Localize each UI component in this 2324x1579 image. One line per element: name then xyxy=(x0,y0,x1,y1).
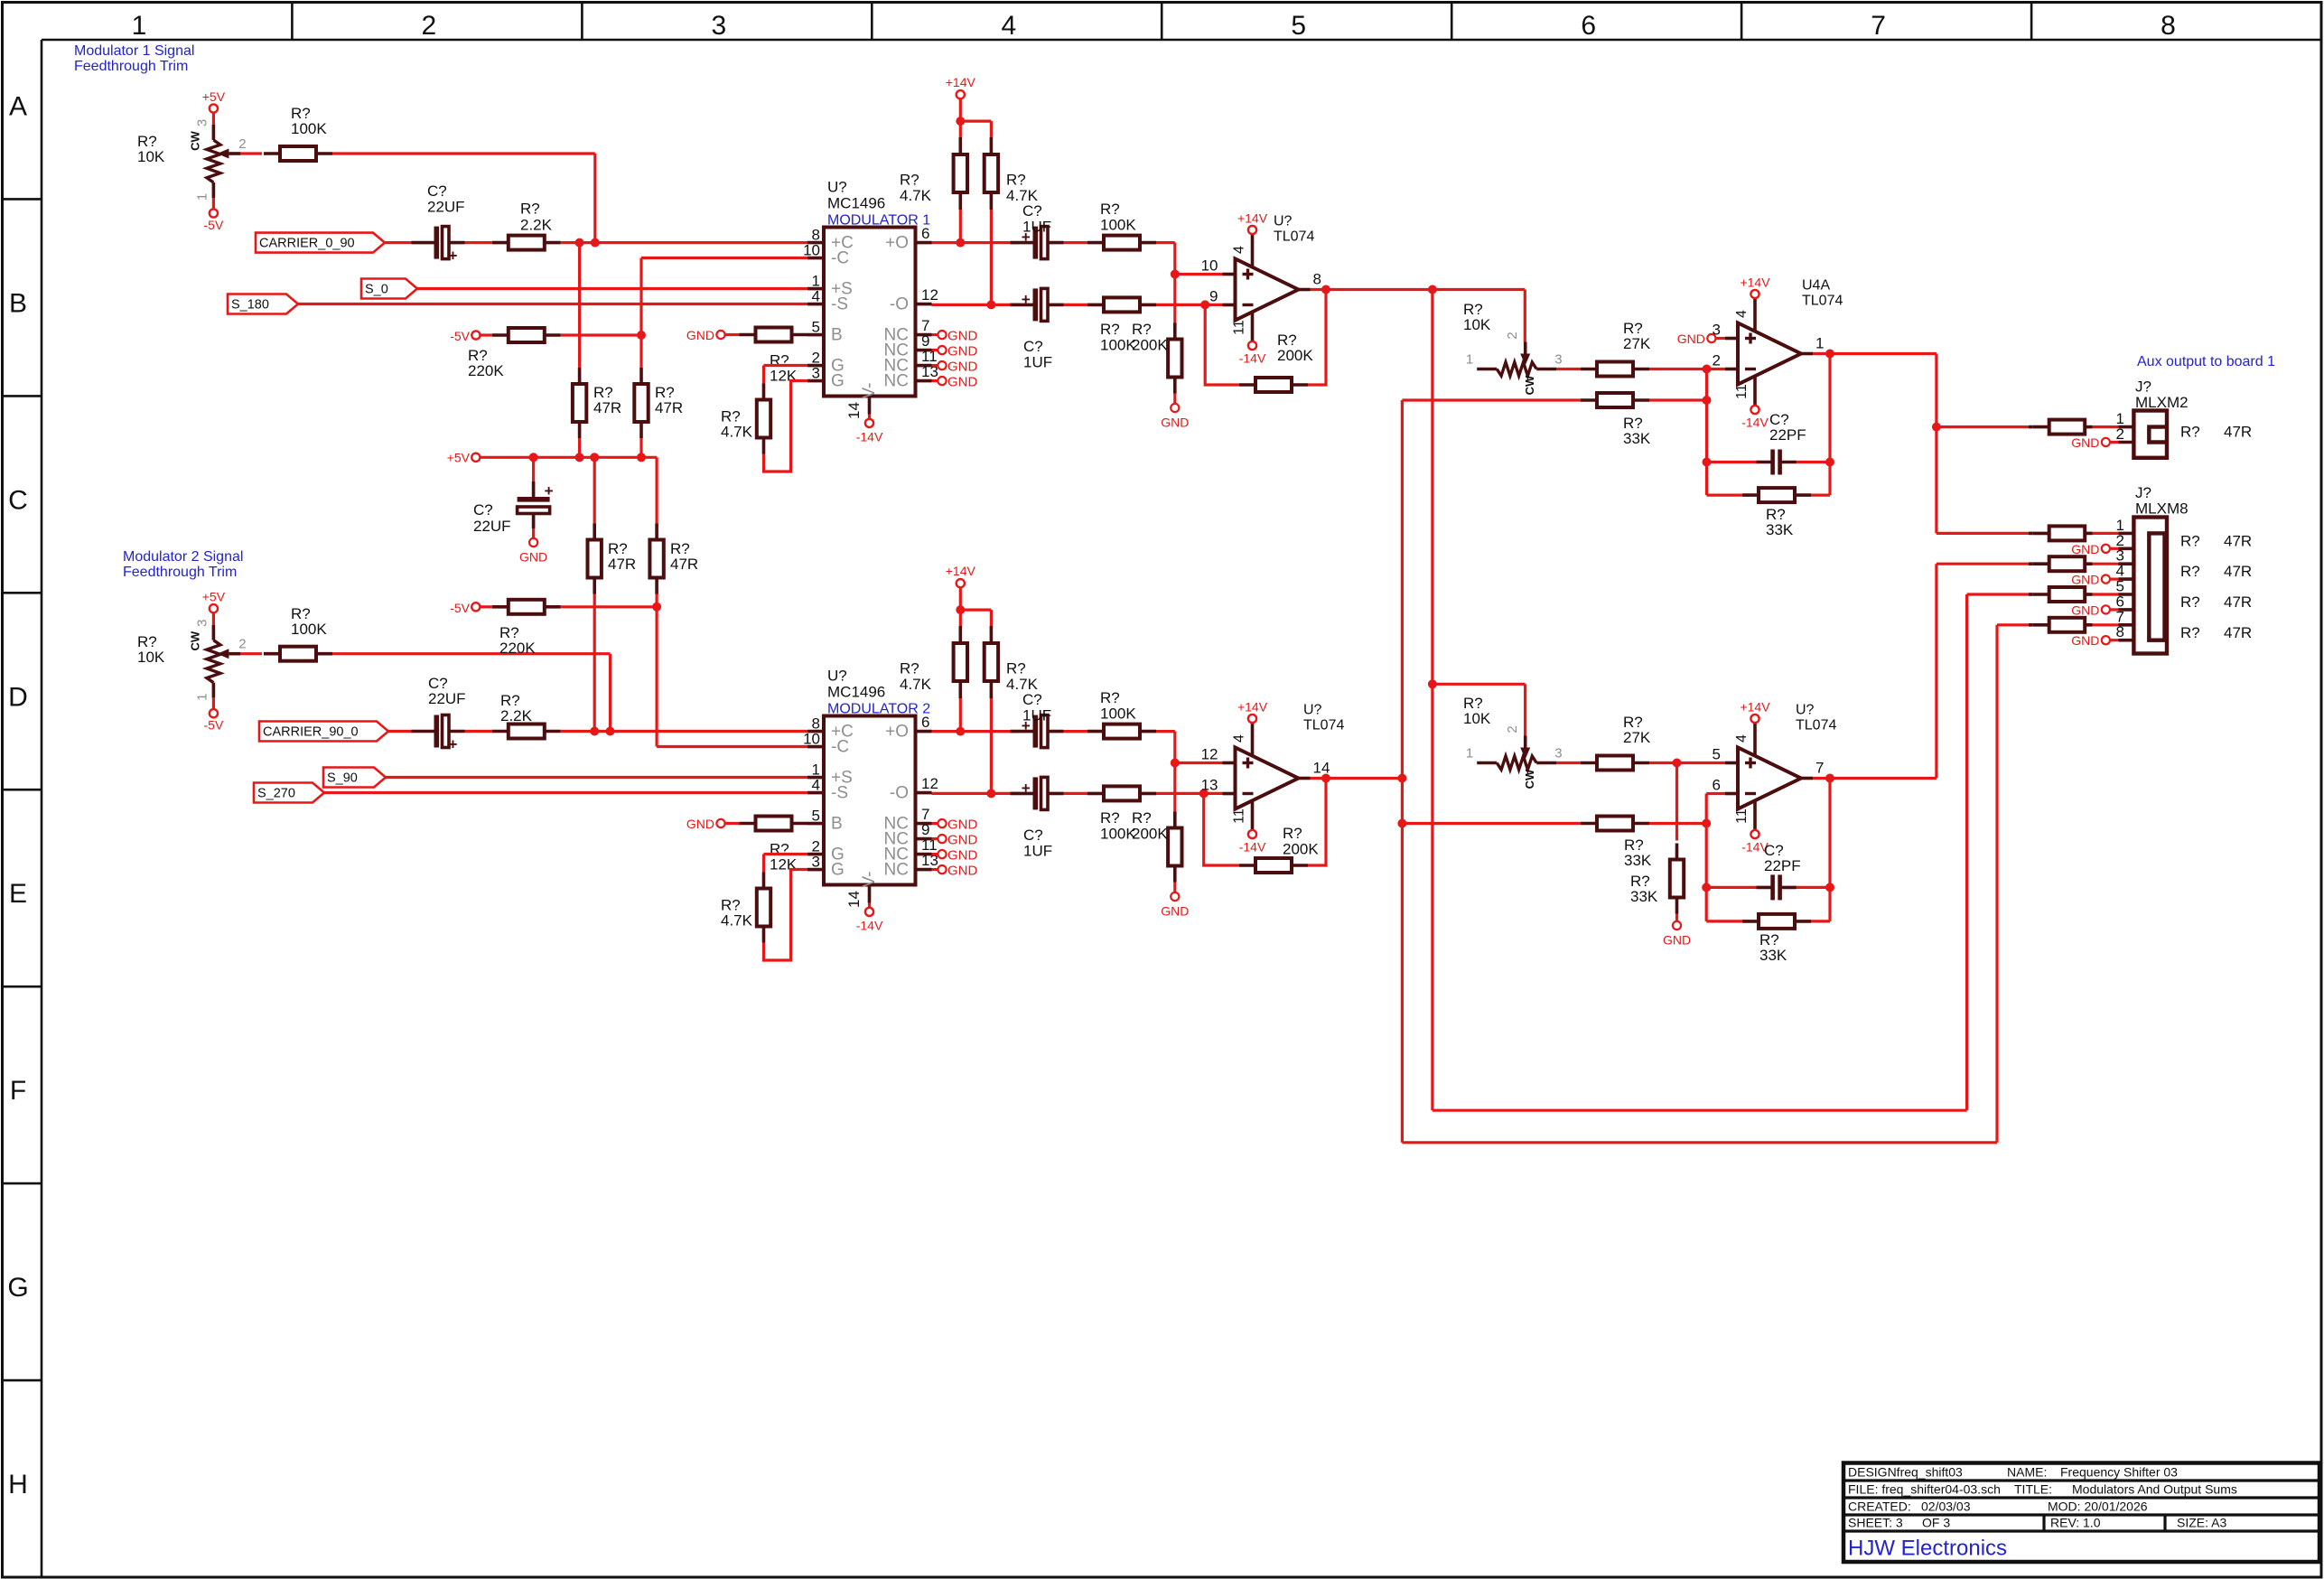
svg-text:33K: 33K xyxy=(1630,888,1658,905)
svg-text:R?: R? xyxy=(1132,321,1152,338)
svg-text:4: 4 xyxy=(812,777,820,794)
svg-text:CREATED:: CREATED: xyxy=(1848,1500,1911,1514)
junction +in node mod2 xyxy=(1171,759,1180,768)
resistor R? 100K -O mod1 xyxy=(1087,297,1156,312)
svg-text:4.7K: 4.7K xyxy=(900,676,932,693)
connector J? MLXM2 xyxy=(2116,378,2189,458)
svg-text:+: + xyxy=(545,482,554,500)
svg-text:+5V: +5V xyxy=(202,590,226,604)
ground flag at B pin mod1 xyxy=(686,328,725,342)
svg-text:S_180: S_180 xyxy=(231,298,269,313)
junction out1 / long vertical xyxy=(1428,285,1437,294)
svg-text:GND: GND xyxy=(947,360,978,375)
wire decoupling cap to GND xyxy=(532,528,535,538)
op-amp U? TL074 mod1 sum xyxy=(1201,211,1321,366)
capacitor C? 22PF stage1 xyxy=(1757,450,1797,475)
junction op4 out / fb xyxy=(1825,774,1834,783)
wire 2.2K mod2 to MC1496 pin8 xyxy=(561,730,807,733)
junction 33K/-in vertical stage1 xyxy=(1703,396,1712,405)
resistor R? 47R C mod2 xyxy=(588,524,602,594)
junction mod2 +C / pot wire xyxy=(606,727,615,736)
feedback loop 200K opamp3 xyxy=(1204,779,1326,866)
svg-text:+: + xyxy=(449,248,458,265)
wire opamp1 output xyxy=(1311,288,1526,291)
svg-text:22UF: 22UF xyxy=(428,690,466,707)
svg-text:MLXM8: MLXM8 xyxy=(2135,500,2189,517)
capacitor C? 1UF +O mod2 xyxy=(1011,715,1064,748)
comment Aux output to board 1 xyxy=(2137,354,2275,369)
wire rail to 22UF decoupling cap xyxy=(532,457,535,481)
wire +14V to 4.7K pair mod2 xyxy=(960,587,991,626)
ground below 200K mod2 xyxy=(1161,892,1189,919)
wire 47R-C to mod2 +C node xyxy=(593,594,596,732)
svg-text:-C: -C xyxy=(831,249,849,268)
resistor R? 33K input stage2 xyxy=(1581,817,1649,831)
svg-text:Modulators And Output Sums: Modulators And Output Sums xyxy=(2072,1482,2237,1497)
junction op1-out vertical / pot2 branch xyxy=(1428,679,1437,688)
wire -in vertical stage1 xyxy=(1705,369,1708,496)
svg-text:U?: U? xyxy=(1796,703,1815,718)
svg-text:CW: CW xyxy=(188,130,201,150)
wire -O row mod2 xyxy=(932,792,1021,795)
label R? 10K for trim pot 1 xyxy=(137,133,165,165)
ground flag MLXM2 pin2 xyxy=(2071,435,2133,450)
svg-text:6: 6 xyxy=(1713,777,1721,794)
resistor R? 200K feedback opamp3 xyxy=(1239,858,1308,873)
op-amp U? TL074 stage2 xyxy=(1713,700,1837,855)
resistor R? 12K mod1 xyxy=(740,328,808,342)
svg-text:+14V: +14V xyxy=(1237,211,1268,226)
net flag S_90 xyxy=(323,768,386,788)
svg-text:14: 14 xyxy=(1313,760,1330,777)
svg-text:GND: GND xyxy=(947,329,978,344)
net flag CARRIER_90_0 xyxy=(259,722,388,742)
wire +in down to 200K mod1 xyxy=(1173,275,1176,323)
junction fb right / 22PF stage1 xyxy=(1825,458,1834,467)
label R? 47R MLXM8 pin3 xyxy=(2180,563,2252,580)
svg-text:7: 7 xyxy=(1871,11,1886,41)
wire fb right vertical stage1 xyxy=(1828,354,1831,496)
svg-text:R?: R? xyxy=(1100,809,1120,827)
svg-text:220K: 220K xyxy=(468,362,504,379)
resistor R? 33K feedback stage1 xyxy=(1742,488,1811,502)
label R? 47R C mod2 xyxy=(608,540,636,573)
svg-text:6: 6 xyxy=(1581,11,1596,41)
wire -5V mod2 to 220K xyxy=(480,605,491,608)
wire 200K to GND mod2 xyxy=(1173,883,1176,892)
label R? 4.7K pullup B mod1 xyxy=(1006,172,1039,205)
svg-text:1UF: 1UF xyxy=(1022,707,1051,724)
svg-text:10K: 10K xyxy=(137,649,165,666)
svg-text:S_270: S_270 xyxy=(257,787,295,801)
resistor R? 33K input stage1 xyxy=(1581,393,1649,407)
svg-text:U?: U? xyxy=(827,668,847,685)
svg-text:33K: 33K xyxy=(1623,430,1651,447)
label C? 1UF +O mod1 xyxy=(1022,202,1051,236)
wire op4 output xyxy=(1813,777,1937,780)
resistor R? 47R MLXM8 pin1 xyxy=(2029,526,2133,540)
wire rail down to 47R-C xyxy=(593,457,596,523)
svg-text:GND: GND xyxy=(2071,573,2099,587)
svg-text:E: E xyxy=(9,879,27,909)
svg-text:10: 10 xyxy=(803,731,820,748)
resistor R? 47R D mod2 xyxy=(649,524,663,594)
svg-text:R?: R? xyxy=(1006,172,1026,189)
junction -O / 4.7K-B mod2 xyxy=(986,789,995,798)
svg-text:Aux output to board 1: Aux output to board 1 xyxy=(2137,354,2275,369)
svg-text:G: G xyxy=(7,1273,28,1303)
svg-text:+14V: +14V xyxy=(1237,700,1268,715)
svg-text:R?: R? xyxy=(2180,593,2200,611)
svg-text:47R: 47R xyxy=(2224,532,2252,549)
resistor R? 12K mod2 xyxy=(740,817,808,831)
wire to MLXM8 pin1 xyxy=(1937,532,2029,535)
svg-text:GND: GND xyxy=(519,550,547,565)
svg-text:TITLE:: TITLE: xyxy=(2014,1482,2052,1497)
wire 47R-B to +5V rail xyxy=(639,438,642,457)
svg-text:1: 1 xyxy=(1466,352,1473,368)
svg-text:11: 11 xyxy=(1734,808,1750,824)
svg-text:47R: 47R xyxy=(655,399,683,416)
svg-text:12: 12 xyxy=(1201,746,1218,763)
svg-text:4.7K: 4.7K xyxy=(900,187,932,204)
junction U4A out / fb xyxy=(1825,350,1834,359)
ground flag MLXM8 pin8 xyxy=(2071,633,2133,648)
wire to MLXM2 pin1 xyxy=(1937,425,2029,428)
wire gnd to U4A pin3 xyxy=(1716,337,1726,340)
wire 33K to -in vertical stage1 xyxy=(1649,398,1707,401)
label R? 4.7K pullup A mod2 xyxy=(900,660,932,694)
svg-text:22UF: 22UF xyxy=(473,518,511,535)
svg-text:F: F xyxy=(10,1076,26,1106)
svg-text:GND: GND xyxy=(1161,416,1189,430)
junction +in node mod1 xyxy=(1171,270,1180,279)
svg-text:U?: U? xyxy=(1303,703,1322,718)
svg-text:-14V: -14V xyxy=(1239,840,1266,855)
wire -O row mod1 xyxy=(932,304,1021,306)
wire 4.7K-B to -O row mod1 xyxy=(990,210,993,304)
wire op4 pin6 to -in vertical xyxy=(1706,794,1725,921)
wire 200K to GND mod1 xyxy=(1173,394,1176,404)
svg-text:8: 8 xyxy=(2116,623,2124,640)
svg-text:27K: 27K xyxy=(1623,729,1651,746)
svg-text:33K: 33K xyxy=(1759,947,1787,964)
svg-text:2: 2 xyxy=(238,136,246,152)
junction +O / 4.7K-A mod1 xyxy=(956,238,965,248)
svg-text:1: 1 xyxy=(194,193,210,201)
label R? 200K bias mod1 xyxy=(1132,321,1168,354)
feedback loop 200K opamp1 xyxy=(1205,289,1326,386)
label R? 200K bias mod2 xyxy=(1132,809,1168,843)
label R? 10K CV stage2 xyxy=(1463,695,1491,727)
junction rail / 47R-A xyxy=(575,453,584,462)
junction -in vertical / 33K stage2 xyxy=(1702,819,1711,828)
svg-text:R?: R? xyxy=(1100,321,1120,338)
svg-text:C?: C? xyxy=(1023,338,1043,355)
IC U? MC1496 MODULATOR 2 xyxy=(803,668,977,933)
svg-text:C?: C? xyxy=(1023,827,1043,844)
wire cap to 100K +O mod2 xyxy=(1064,730,1088,733)
svg-text:8: 8 xyxy=(1313,271,1321,288)
svg-text:SHEET: 3: SHEET: 3 xyxy=(1848,1516,1903,1530)
svg-text:+O: +O xyxy=(885,723,909,742)
svg-text:GND: GND xyxy=(686,328,714,342)
svg-text:C?: C? xyxy=(473,501,493,519)
svg-text:R?: R? xyxy=(900,660,919,677)
label R? 220K mod1 xyxy=(468,347,504,379)
wire pot1 wiper to R 100K xyxy=(240,152,262,154)
label C? 22PF stage2 xyxy=(1764,842,1801,874)
svg-text:1: 1 xyxy=(1815,335,1824,352)
wire +O row mod2 xyxy=(932,730,1021,733)
junction op3 vertical / 33K row2 xyxy=(1397,819,1406,828)
resistor R? 2.2K mod2 xyxy=(492,724,561,739)
wire 4.7K-A to +O row mod1 xyxy=(959,210,962,243)
svg-text:5: 5 xyxy=(812,808,820,825)
label R? 4.7K pullup A mod1 xyxy=(900,172,932,205)
svg-text:4.7K: 4.7K xyxy=(721,912,753,930)
svg-text:4: 4 xyxy=(1232,734,1247,743)
svg-text:1: 1 xyxy=(194,694,210,701)
svg-text:CW: CW xyxy=(1523,769,1536,789)
wire 220K mod2 to 47R-D vertical xyxy=(561,605,657,608)
wire +14V to 4.7K pair mod1 xyxy=(960,98,991,137)
wire 33K to -in vertical stage2 xyxy=(1649,822,1706,825)
wire gnd to 12K mod2 xyxy=(725,822,740,825)
label R? 220K mod2 xyxy=(499,624,536,657)
junction rail / 47R-B xyxy=(637,453,646,462)
wire pin2 to 4.7K mod2 xyxy=(764,855,808,874)
junction -in node mod2 xyxy=(1199,789,1209,798)
svg-text:47R: 47R xyxy=(2224,624,2252,641)
svg-text:R?: R? xyxy=(1100,201,1120,218)
svg-text:3: 3 xyxy=(1554,746,1562,761)
svg-text:GND: GND xyxy=(947,344,978,360)
wire 33K to GND stage2 xyxy=(1675,914,1678,921)
svg-text:+14V: +14V xyxy=(1740,276,1770,290)
svg-text:MC1496: MC1496 xyxy=(827,684,885,701)
svg-text:-5V: -5V xyxy=(450,601,470,615)
wire op3-out long vertical xyxy=(1401,400,1404,1143)
svg-text:NC: NC xyxy=(884,861,909,880)
svg-text:J?: J? xyxy=(2135,378,2151,396)
wire bottom rail inner xyxy=(1433,594,1967,1110)
svg-text:3: 3 xyxy=(812,365,820,382)
wire pin2 to 4.7K mod1 xyxy=(764,366,808,385)
comment Modulator 1 Signal Feedthrough Trim xyxy=(74,43,194,74)
wire 100K to -in node mod2 xyxy=(1156,792,1223,795)
label R? 2.2K mod2 xyxy=(500,692,533,724)
label C? 22UF decoupling xyxy=(473,501,511,535)
svg-text:-5V: -5V xyxy=(204,718,224,733)
comment Modulator 2 Signal Feedthrough Trim xyxy=(123,549,243,580)
svg-text:MC1496: MC1496 xyxy=(827,195,885,212)
label R? 47R MLXM8 pin1 xyxy=(2180,532,2252,549)
resistor R? 47R MLXM8 pin7 xyxy=(2029,618,2133,632)
label R? 10K for trim pot 2 xyxy=(137,633,165,666)
junction mod2 +C / 47R-C xyxy=(590,727,599,736)
wire carrier flag to cap xyxy=(385,241,412,244)
svg-text:-C: -C xyxy=(831,738,849,757)
wire 100K to +C node corner xyxy=(332,154,595,243)
svg-text:MLXM2: MLXM2 xyxy=(2135,394,2189,411)
svg-text:R?: R? xyxy=(900,172,919,189)
svg-text:-O: -O xyxy=(890,784,909,803)
svg-text:10: 10 xyxy=(1201,257,1218,275)
svg-text:-S: -S xyxy=(831,784,848,803)
wire -5V to 220K xyxy=(481,333,492,336)
potentiometer R? 10K CV stage2 xyxy=(1466,725,1563,789)
wire pot2cv to 27K xyxy=(1556,761,1581,764)
svg-text:DESIGNfreq_shift03: DESIGNfreq_shift03 xyxy=(1848,1465,1963,1480)
svg-text:100K: 100K xyxy=(291,120,327,137)
junction fb top-left stage1 xyxy=(1703,458,1712,467)
label C? 1UF +O mod2 xyxy=(1022,691,1051,724)
svg-text:J?: J? xyxy=(2135,484,2151,501)
wire +in to opamp mod2 xyxy=(1175,761,1223,764)
svg-text:-S: -S xyxy=(831,295,848,314)
svg-text:TL074: TL074 xyxy=(1274,229,1314,245)
svg-text:220K: 220K xyxy=(499,640,536,657)
resistor R? 220K mod2 xyxy=(492,600,561,614)
svg-text:1UF: 1UF xyxy=(1022,219,1051,236)
net flag S_270 xyxy=(254,783,324,803)
wire 100K to -in node mod1 xyxy=(1156,304,1223,306)
svg-text:Frequency Shifter 03: Frequency Shifter 03 xyxy=(2060,1465,2178,1480)
label R? 200K feedback opamp3 xyxy=(1283,825,1319,858)
svg-text:GND: GND xyxy=(947,864,978,879)
wire 22PF row stage1 xyxy=(1707,461,1831,463)
label R? 10K CV stage1 xyxy=(1463,301,1491,333)
svg-text:+: + xyxy=(1022,291,1031,308)
label R? 47R MLXM8 pin7 xyxy=(2180,624,2252,641)
svg-text:REV: 1.0: REV: 1.0 xyxy=(2050,1516,2101,1530)
svg-text:C?: C? xyxy=(1022,691,1042,708)
wire 220K to 47R-B vertical xyxy=(561,333,641,336)
svg-text:C: C xyxy=(8,485,28,515)
svg-text:CARRIER_0_90: CARRIER_0_90 xyxy=(259,237,355,251)
label R? 12K mod2 xyxy=(770,841,798,874)
wire +in down to 200K mod2 xyxy=(1173,763,1176,812)
wire 47R-D to -5V row and pin10 mod2 xyxy=(657,594,807,747)
resistor R? 47R MLXM2 xyxy=(2029,420,2133,434)
svg-text:4.7K: 4.7K xyxy=(721,424,753,441)
svg-text:NC: NC xyxy=(884,372,909,391)
svg-text:02/03/03: 02/03/03 xyxy=(1921,1500,1971,1514)
label R? 47R B mod1 xyxy=(655,384,683,416)
label R? 100K -O mod2 xyxy=(1100,809,1136,843)
label R? 33K input stage2 xyxy=(1624,836,1652,869)
svg-text:-O: -O xyxy=(890,295,909,314)
supply -5V mod1 xyxy=(450,329,480,343)
wire cap to 100K +O mod1 xyxy=(1064,241,1088,244)
op-amp U? TL074 mod2 sum xyxy=(1201,700,1345,855)
IC U? MC1496 MODULATOR 1 xyxy=(803,179,977,444)
wire 4.7K-A to +O row mod2 xyxy=(959,698,962,732)
svg-text:+5V: +5V xyxy=(202,89,226,104)
label R? 4.7K G-loop mod2 xyxy=(721,897,753,930)
supply +5V rail xyxy=(447,451,481,465)
label C? 22UF mod2 xyxy=(428,675,466,707)
wire 4.7K-B to -O row mod2 xyxy=(990,698,993,793)
label R? 33K feedback stage1 xyxy=(1766,506,1794,538)
svg-text:2: 2 xyxy=(1713,352,1721,369)
ground flag U4A +in xyxy=(1677,332,1716,346)
junction -in node mod1 xyxy=(1200,300,1209,309)
supply -5V mod2 xyxy=(450,601,480,615)
svg-text:14: 14 xyxy=(845,402,863,419)
svg-text:GND: GND xyxy=(2071,435,2099,450)
label R? 100K +O mod1 xyxy=(1100,201,1136,234)
svg-text:Feedthrough Trim: Feedthrough Trim xyxy=(123,565,237,580)
svg-text:GND: GND xyxy=(947,833,978,848)
label R? 33K to gnd stage2 xyxy=(1630,873,1658,905)
svg-text:11: 11 xyxy=(1232,808,1247,824)
wire to MLXM8 pin7 xyxy=(1997,623,2029,626)
svg-text:OF 3: OF 3 xyxy=(1922,1516,1950,1530)
potentiometer R? 10K trim 1 xyxy=(188,89,246,232)
svg-text:+: + xyxy=(449,736,458,753)
svg-text:TL074: TL074 xyxy=(1303,718,1344,733)
svg-text:9: 9 xyxy=(1209,288,1218,305)
svg-text:G: G xyxy=(831,372,845,391)
resistor R? 100K pot2 xyxy=(264,647,332,661)
net flag S_0 xyxy=(361,279,417,299)
potentiometer R? 10K trim 2 xyxy=(188,590,246,733)
resistor R? 27K stage1 xyxy=(1581,362,1649,377)
svg-text:R?: R? xyxy=(2180,624,2200,641)
wire 100K pot2 to mod2 +C corner xyxy=(332,654,611,732)
svg-text:R?: R? xyxy=(1006,660,1026,677)
svg-text:CW: CW xyxy=(1523,375,1536,395)
svg-text:Modulator 2 Signal: Modulator 2 Signal xyxy=(123,549,243,565)
wire branch to CV pot2 xyxy=(1433,684,1526,740)
junction rail / 22UF cap xyxy=(529,453,538,462)
svg-text:200K: 200K xyxy=(1132,826,1168,843)
wire opamp3 output xyxy=(1311,777,1403,780)
junction +14V branch mod2 xyxy=(956,605,965,614)
svg-text:1: 1 xyxy=(1466,746,1473,761)
svg-text:3: 3 xyxy=(194,620,210,627)
label R? 100K pot2 xyxy=(291,605,327,638)
resistor R? 200K bias mod1 xyxy=(1168,323,1181,394)
resistor R? 47R B mod1 xyxy=(634,368,648,438)
svg-text:47R: 47R xyxy=(2224,593,2252,611)
wire 22PF row stage2 xyxy=(1706,886,1830,889)
svg-text:R?: R? xyxy=(1100,689,1120,706)
resistor R? 200K feedback opamp1 xyxy=(1239,378,1308,392)
wire cap2 to 2.2K xyxy=(465,730,492,733)
svg-text:G: G xyxy=(831,861,845,880)
resistor R? 4.7K pullup A mod2 xyxy=(954,626,967,698)
svg-text:10K: 10K xyxy=(137,148,165,165)
svg-text:200K: 200K xyxy=(1132,337,1168,354)
wire cap to 2.2K xyxy=(465,241,492,244)
svg-text:200K: 200K xyxy=(1277,347,1313,364)
connector J? MLXM8 xyxy=(2116,484,2189,654)
svg-text:R?: R? xyxy=(2180,563,2200,580)
svg-text:10: 10 xyxy=(803,242,820,259)
wire fb right vertical stage2 xyxy=(1828,779,1831,921)
svg-text:33K: 33K xyxy=(1624,852,1652,869)
svg-text:+O: +O xyxy=(885,234,909,253)
svg-text:S_0: S_0 xyxy=(365,283,388,297)
wire pin10 -C to 47R-B vertical xyxy=(641,258,807,369)
svg-text:GND: GND xyxy=(947,848,978,864)
wire to MLXM8 pin5 xyxy=(1967,593,2029,595)
svg-text:+: + xyxy=(1022,780,1031,797)
svg-text:GND: GND xyxy=(1161,904,1189,919)
